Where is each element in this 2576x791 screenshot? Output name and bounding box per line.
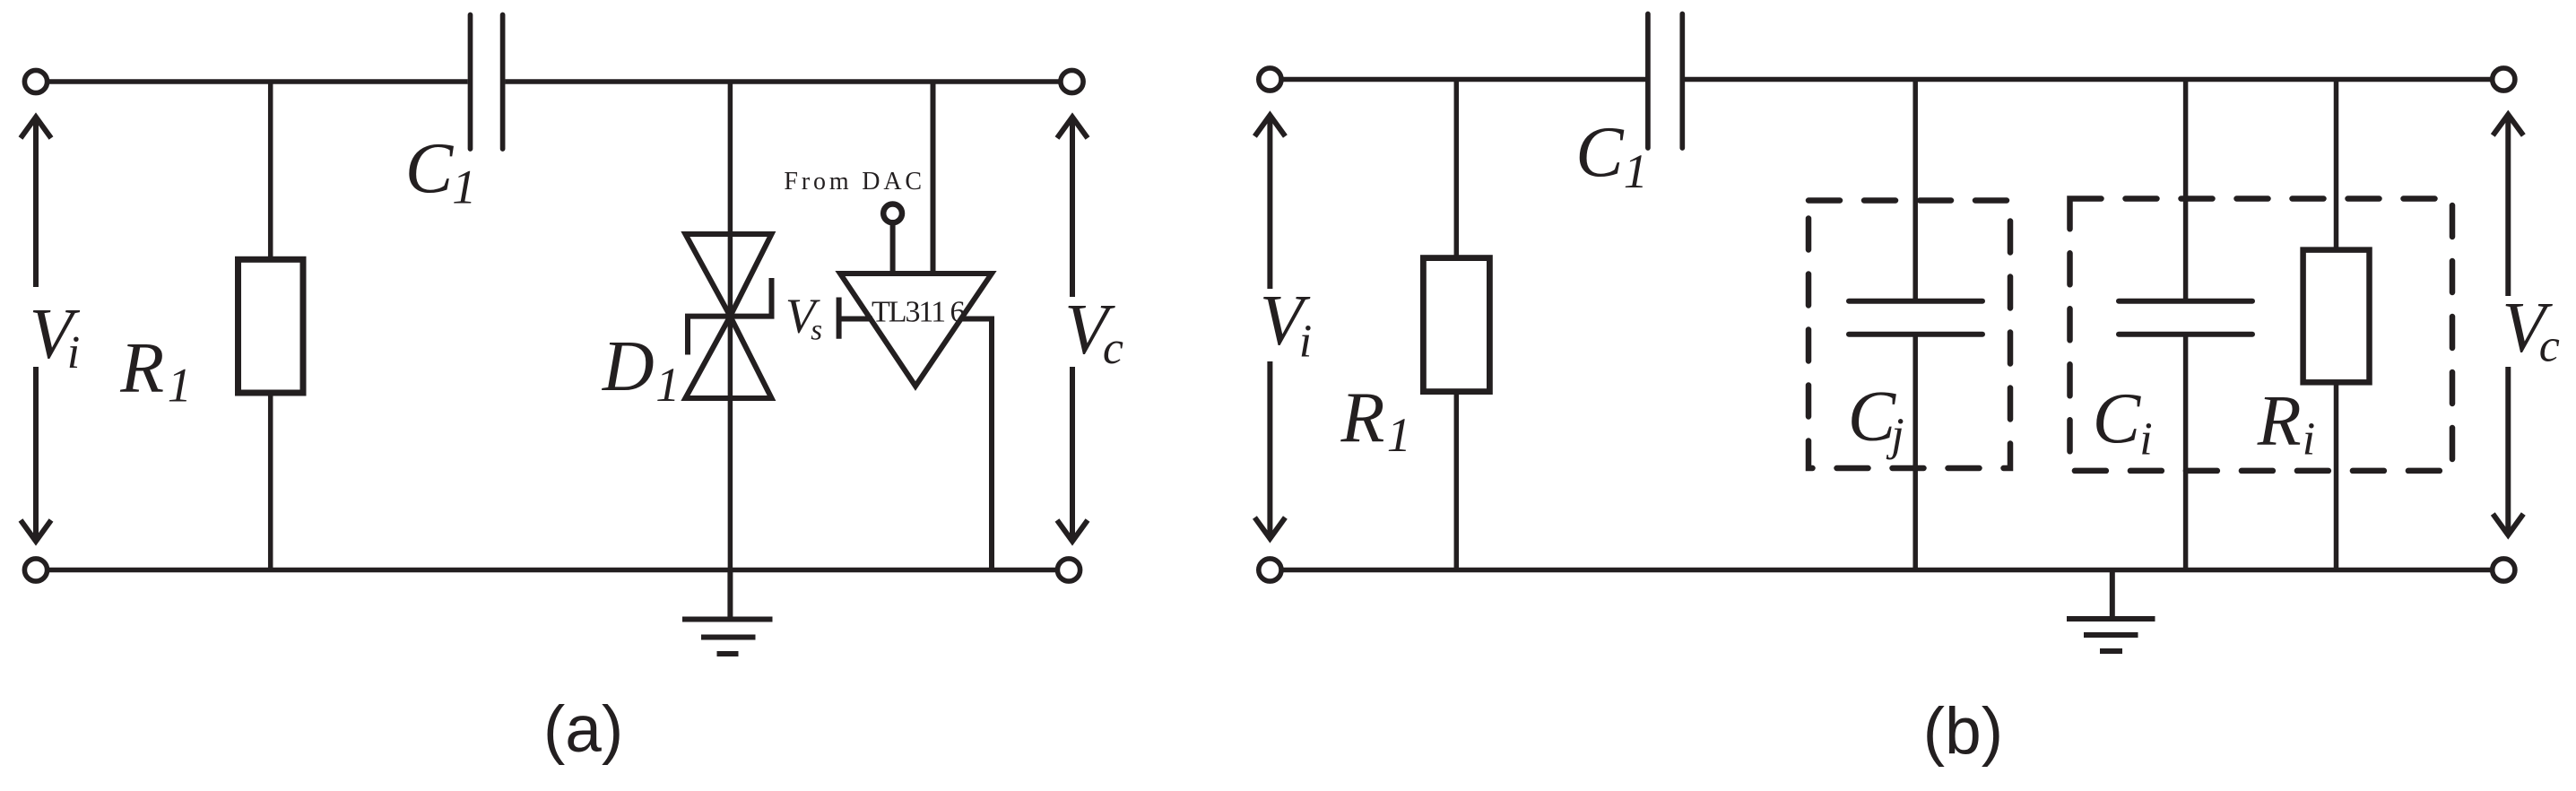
wire Cj bottom branch (b) xyxy=(1912,335,1918,570)
label C1 (a) xyxy=(405,129,476,213)
svg-text:D: D xyxy=(602,327,655,406)
wire Ci bottom branch (b) xyxy=(2183,335,2189,570)
wire R1 top branch (b) xyxy=(1454,80,1460,258)
wire R1 bottom branch (a) xyxy=(268,393,273,570)
svg-text:C: C xyxy=(405,129,455,208)
dashed box Ci Ri (b) xyxy=(2070,199,2453,471)
terminal top-right (a) xyxy=(1061,70,1083,92)
caption (b) xyxy=(1923,695,2003,768)
label Vi (b) xyxy=(1260,282,1312,368)
svg-text:s: s xyxy=(811,314,822,346)
wire bottom rail (a) xyxy=(48,568,1057,573)
label Ri (b) xyxy=(2257,382,2315,465)
arrow Vc (b) xyxy=(2493,115,2523,535)
svg-text:i: i xyxy=(67,327,80,378)
wire From DAC stub (a) xyxy=(890,223,896,272)
wire D1 branch (a) xyxy=(728,82,733,570)
resistor Ri (b) xyxy=(2303,250,2370,383)
wire Ri bottom branch (b) xyxy=(2334,382,2339,569)
ground (a) xyxy=(682,570,773,655)
svg-text:(b): (b) xyxy=(1923,695,2003,768)
op-amp U1 comparator TL3116 (a) xyxy=(840,274,992,387)
svg-text:C: C xyxy=(1575,113,1625,192)
label Ci (b) xyxy=(2093,380,2153,465)
wire comparator plus input (a) xyxy=(931,82,936,272)
resistor R1 (a) xyxy=(239,259,304,393)
label R1 (a) xyxy=(119,329,191,413)
wire Ri top branch (b) xyxy=(2334,80,2339,251)
terminal From DAC (a) xyxy=(883,204,902,223)
svg-text:i: i xyxy=(2303,414,2315,465)
capacitor C1 (a) xyxy=(471,15,503,150)
svg-text:R: R xyxy=(119,329,164,408)
terminal bottom-right (a) xyxy=(1057,559,1080,581)
arrow Vc (a) xyxy=(1057,117,1088,542)
terminal top-left (a) xyxy=(24,70,47,92)
wire top rail left segment (a) xyxy=(48,79,468,84)
label C1 (b) xyxy=(1575,113,1648,197)
dashed box Cj (b) xyxy=(1808,201,2010,469)
svg-text:R: R xyxy=(1340,378,1385,457)
wire top rail left segment (b) xyxy=(1282,77,1648,83)
arrow Vi (a) xyxy=(21,117,51,542)
svg-text:(a): (a) xyxy=(543,693,623,766)
node Vs stub (a) xyxy=(839,298,872,339)
terminal bottom-left (a) xyxy=(24,559,47,581)
svg-text:c: c xyxy=(1103,323,1123,374)
svg-text:TL311 6: TL311 6 xyxy=(872,296,966,329)
diode D1 bidirectional zener (a) xyxy=(685,234,771,398)
arrow Vi (b) xyxy=(1254,116,1285,539)
svg-text:C: C xyxy=(2093,380,2142,459)
terminal top-right (b) xyxy=(2493,68,2515,91)
svg-text:1: 1 xyxy=(1624,144,1648,198)
svg-text:C: C xyxy=(1848,378,1897,456)
wire bottom rail (b) xyxy=(1282,568,2493,573)
svg-text:1: 1 xyxy=(452,160,476,213)
label Vi (a) xyxy=(30,295,81,378)
label From DAC (a) xyxy=(784,168,922,196)
label R1 (b) xyxy=(1340,378,1411,462)
wire R1 top branch (a) xyxy=(268,82,273,259)
label Vs (a) xyxy=(785,288,822,346)
wire Cj top branch (b) xyxy=(1912,80,1918,301)
svg-text:i: i xyxy=(1299,317,1312,368)
capacitor Cj (b) xyxy=(1849,301,1982,335)
svg-text:1: 1 xyxy=(655,358,680,412)
wire Ci top branch (b) xyxy=(2183,80,2189,301)
svg-text:R: R xyxy=(2257,382,2302,461)
wire R1 bottom branch (b) xyxy=(1454,392,1460,570)
terminal bottom-left (b) xyxy=(1259,559,1281,581)
label Vc (a) xyxy=(1064,291,1123,374)
label TL3116 (a) xyxy=(872,296,966,329)
svg-text:1: 1 xyxy=(168,359,192,413)
svg-text:i: i xyxy=(2139,414,2152,465)
wire top rail right segment (b) xyxy=(1682,77,2492,83)
capacitor Ci (b) xyxy=(2119,301,2252,335)
label D1 (a) xyxy=(602,327,680,412)
terminal top-left (b) xyxy=(1259,68,1281,91)
svg-text:1: 1 xyxy=(1387,408,1411,462)
ground (b) xyxy=(2067,570,2155,652)
caption (a) xyxy=(543,693,623,766)
label Cj (b) xyxy=(1848,378,1904,460)
wire top rail right segment (a) xyxy=(505,79,1061,84)
label Vc (b) xyxy=(2502,289,2559,372)
terminal bottom-right (b) xyxy=(2493,559,2515,581)
svg-text:From DAC: From DAC xyxy=(784,168,922,196)
resistor R1 (b) xyxy=(1423,258,1489,392)
wire comparator output (a) xyxy=(960,319,992,570)
capacitor C1 (b) xyxy=(1648,14,1682,149)
svg-text:c: c xyxy=(2539,320,2560,371)
